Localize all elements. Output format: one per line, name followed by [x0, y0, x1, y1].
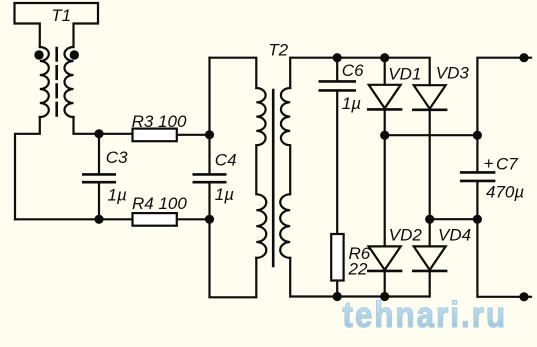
- node output minus terminal: [519, 292, 528, 301]
- transformer T1 secondary winding: [65, 47, 74, 117]
- wire output minus terminal: [477, 219, 531, 297]
- node VD3-VD4 junction: [425, 215, 434, 224]
- node VD1-VD2 mid junction: [380, 131, 389, 140]
- svg-text:tehnari.ru: tehnari.ru: [343, 296, 508, 336]
- svg-text:22: 22: [348, 260, 368, 279]
- transformer T1 core: [55, 48, 58, 121]
- wire C7 bottom lead: [476, 182, 478, 219]
- node C7 bottom junction: [473, 215, 482, 224]
- svg-text:C6: C6: [342, 61, 364, 80]
- svg-text:VD4: VD4: [438, 226, 471, 245]
- transformer T1 top loop wire: [15, 3, 99, 47]
- wire VD3 cathode to VD4 anode: [429, 110, 431, 247]
- capacitor C3: [82, 174, 116, 182]
- wire T2 secondary bottom lead and bottom-right rail: [290, 258, 430, 297]
- svg-text:C4: C4: [215, 151, 237, 170]
- wire VD1 cathode to VD2 anode: [384, 109, 386, 246]
- diode VD4: [412, 246, 447, 271]
- resistor R3: [133, 129, 177, 142]
- wire T1 right lead to node A: [74, 117, 100, 134]
- node C7 top junction: [473, 131, 482, 140]
- wire VD2 cathode lead: [384, 271, 386, 297]
- svg-text:1µ: 1µ: [215, 185, 234, 204]
- wire R6 bottom lead: [336, 281, 338, 297]
- wire C6 top lead: [336, 58, 338, 81]
- diode VD1: [367, 85, 402, 110]
- transformer T1 primary winding: [40, 47, 49, 117]
- svg-text:VD1: VD1: [388, 65, 421, 84]
- wire node D down to T2 left winding bottom: [210, 219, 257, 297]
- wire C7 top lead: [476, 135, 478, 171]
- svg-text:R3 100: R3 100: [132, 112, 187, 131]
- capacitor C4: [193, 174, 227, 182]
- transformer T2 primary winding: [256, 88, 266, 258]
- svg-text:1µ: 1µ: [108, 186, 127, 205]
- node VD2 bottom junction: [380, 292, 389, 301]
- wire output plus terminal: [477, 58, 531, 136]
- svg-text:R4 100: R4 100: [132, 194, 187, 213]
- wire node B vertical from T2 top: [208, 58, 210, 135]
- svg-text:T1: T1: [51, 6, 71, 25]
- transformer T2 core: [272, 90, 275, 266]
- wire T2 secondary top lead and top rail to VD3: [290, 58, 430, 88]
- node A junction: [94, 129, 103, 138]
- svg-text:VD3: VD3: [436, 64, 470, 83]
- node B junction: [205, 130, 214, 139]
- wire rail VD3-VD4 node to C7: [430, 218, 478, 220]
- svg-text:+: +: [484, 154, 494, 173]
- wire R4 to node D: [177, 218, 210, 220]
- wire T2 top left segment: [210, 58, 257, 88]
- wire C4 top lead: [208, 135, 210, 174]
- wire C3 bottom lead: [98, 183, 100, 219]
- svg-text:470µ: 470µ: [486, 183, 524, 202]
- wire C3 top lead: [98, 134, 100, 174]
- wire C4 bottom lead: [208, 183, 210, 219]
- capacitor C6: [319, 81, 357, 90]
- wire T1 left lead to bottom rail: [15, 117, 40, 219]
- node VD1 top junction: [380, 53, 389, 62]
- node T1 phase dot right: [70, 50, 79, 59]
- svg-text:1µ: 1µ: [342, 94, 361, 113]
- diode VD3: [412, 85, 447, 110]
- node R6 bottom junction: [333, 292, 342, 301]
- node C3 bottom junction: [94, 215, 103, 224]
- svg-text:T2: T2: [268, 41, 288, 60]
- transformer T2 secondary winding: [280, 88, 290, 258]
- wire bottom-left rail: [15, 218, 133, 220]
- resistor R6: [331, 234, 343, 281]
- wire VD1 anode lead: [384, 58, 386, 85]
- wire node A to R3: [99, 133, 133, 135]
- watermark tehnari.ru: [343, 296, 508, 336]
- svg-text:VD2: VD2: [389, 226, 423, 245]
- node output plus terminal: [519, 53, 528, 62]
- node C6 top junction: [333, 53, 342, 62]
- diode VD2: [367, 246, 402, 271]
- wire C6 bottom lead down to R6: [336, 91, 338, 234]
- wire R3 to node B: [177, 134, 210, 136]
- node D junction: [205, 215, 214, 224]
- wire mid rail VD1 to C7: [385, 134, 478, 136]
- capacitor C7: [460, 172, 496, 181]
- node T1 phase dot left: [34, 50, 43, 59]
- resistor R4: [133, 213, 177, 226]
- svg-text:C3: C3: [106, 148, 128, 167]
- svg-text:C7: C7: [496, 155, 518, 174]
